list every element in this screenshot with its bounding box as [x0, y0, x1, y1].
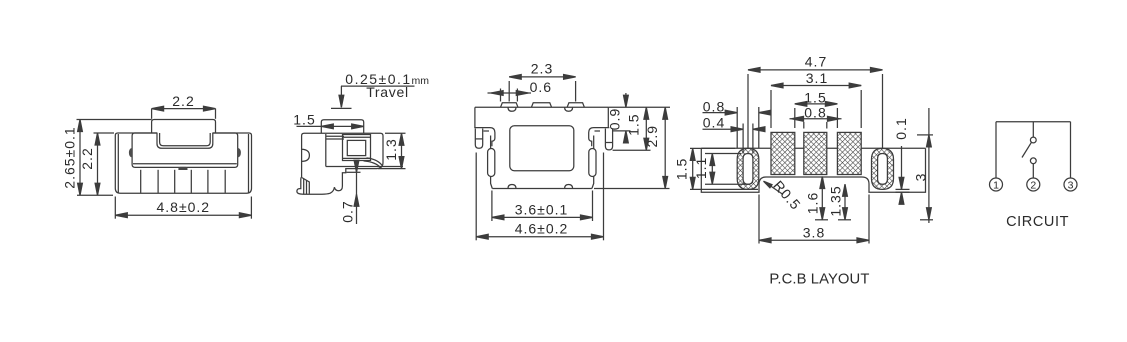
body bottom extension line (left) [77, 194, 113, 196]
rib line 4 [190, 170, 192, 193]
dim 2.3 line [509, 76, 575, 78]
svg-text:1.5: 1.5 [293, 111, 315, 127]
top tab middle [531, 103, 551, 108]
rib line 3 [174, 170, 176, 193]
dim 3.1 line [771, 85, 861, 87]
dim 2.9 [664, 107, 666, 188]
svg-text:1.35: 1.35 [827, 185, 843, 216]
top view cover top edge [475, 106, 608, 108]
dim 3.8: ext lines [758, 195, 760, 244]
dim 0.8 left: line [703, 112, 738, 114]
top notch semicircle left [508, 107, 516, 111]
dim 4.8 extension lines [114, 197, 116, 219]
rib line 5 [207, 170, 209, 193]
svg-text:4.7: 4.7 [805, 53, 827, 69]
shaft lower lines [326, 166, 403, 168]
body top extension line (left) [94, 132, 115, 134]
svg-text:1.1: 1.1 [693, 157, 709, 179]
center detent tab [178, 167, 187, 170]
pcb outline left/bottom/right [701, 148, 925, 192]
dim 1.1 left pcb [705, 153, 741, 155]
central button rect [510, 126, 574, 171]
svg-text:0.8: 0.8 [703, 98, 725, 114]
dim 0.6: ext lines [500, 89, 502, 102]
dim 0.8 pcb mid: ext lines [803, 122, 805, 129]
rib line 1 [140, 170, 142, 193]
side foot chamfer and inner lines [302, 178, 309, 194]
mask notch opening [157, 132, 212, 134]
svg-text:1.5: 1.5 [804, 89, 826, 105]
dim 3.8 line [759, 239, 869, 241]
svg-text:1.6: 1.6 [805, 192, 821, 214]
svg-text:4.6±0.2: 4.6±0.2 [515, 221, 569, 237]
svg-text:1.3: 1.3 [383, 138, 399, 160]
pad rect 1 [771, 132, 795, 174]
button top extension line [77, 119, 152, 121]
dim 1.35 [844, 184, 846, 220]
left arm [474, 128, 495, 147]
dim 4.6: ext lines [475, 153, 477, 241]
dim 0.8 left ext lines [736, 107, 738, 148]
dim 0.6 line + outside arrows [488, 92, 532, 94]
top tab right [567, 103, 584, 108]
svg-text:1.5: 1.5 [673, 158, 689, 180]
left oval pad [737, 148, 759, 189]
button recess notch inner [160, 133, 211, 146]
dim 0.9 [625, 93, 627, 107]
right pin [605, 129, 612, 150]
dim 1.6 [821, 177, 823, 220]
terminal circle 1 [990, 178, 1003, 191]
side body outline [297, 133, 383, 194]
top edge extension right [608, 106, 670, 108]
side inner wall [325, 134, 327, 167]
dim 0.4 left ext lines [742, 124, 744, 154]
dim 1.3 line [401, 133, 403, 168]
svg-text:3.1: 3.1 [806, 70, 828, 86]
svg-text:2.9: 2.9 [644, 125, 660, 147]
circuit right wire [1070, 122, 1072, 178]
left oval hole [743, 154, 753, 185]
svg-text:3: 3 [1068, 179, 1074, 191]
dim 3.6 line [492, 216, 593, 218]
top tab left [501, 103, 519, 108]
travel reference tick [331, 107, 352, 109]
right stadium pad [589, 149, 596, 177]
dim 1.5 (top view) [645, 107, 647, 150]
circuit middle wire lower [1032, 163, 1034, 178]
dim 2.2 left line [97, 133, 99, 195]
frame left side dimple [129, 148, 132, 158]
inner corner curves [364, 161, 381, 168]
rib line 6 [224, 170, 226, 193]
side button cap [321, 120, 363, 133]
0.25 text underline [341, 85, 415, 87]
svg-text:3.6±0.1: 3.6±0.1 [515, 201, 569, 217]
svg-text:CIRCUIT: CIRCUIT [1006, 214, 1069, 230]
dim 1.3 extension lines [385, 132, 406, 134]
dim 1.5 side line [297, 125, 364, 127]
switch lever [1022, 142, 1032, 157]
svg-text:R0.5: R0.5 [770, 177, 804, 213]
front body outline [115, 133, 251, 193]
base right edge [592, 136, 594, 189]
right arm [589, 128, 610, 147]
frame bottom inner line [133, 163, 237, 165]
svg-text:0.6: 0.6 [530, 79, 552, 95]
rib line 2 [157, 170, 159, 193]
dim 1.5 left pcb [690, 147, 735, 149]
dim 3.6: ext lines [491, 191, 493, 222]
cover band lines [326, 135, 344, 137]
dim 2.2 top: dimension line [152, 108, 216, 110]
dim 3.1: ext lines [770, 90, 772, 128]
circuit top wire [996, 121, 1071, 123]
svg-text:1: 1 [993, 179, 999, 191]
front button cap [152, 120, 216, 134]
top notch semicircle right [565, 107, 573, 111]
dim 4.7 line [748, 69, 883, 71]
side shaft walls [343, 135, 371, 161]
svg-text:0.7: 0.7 [340, 200, 356, 222]
R0.5 leader [766, 183, 784, 195]
circuit left wire [995, 122, 997, 178]
svg-text:mm: mm [412, 75, 430, 87]
right oval pad [872, 148, 894, 189]
svg-text:0.8: 0.8 [804, 104, 826, 120]
svg-text:P.C.B LAYOUT: P.C.B LAYOUT [769, 271, 869, 287]
button recess notch outer [157, 133, 213, 148]
circuit middle wire upper [1032, 122, 1034, 138]
svg-text:2.2: 2.2 [79, 147, 95, 169]
dim 2.65 line [79, 120, 81, 196]
dim 2.3: ext lines [508, 81, 510, 102]
left pin [475, 129, 482, 149]
svg-text:4.8±0.2: 4.8±0.2 [156, 199, 210, 215]
cover side edges [474, 107, 476, 127]
right oval hole [878, 154, 888, 185]
svg-text:Travel: Travel [366, 84, 409, 100]
side left D bump [302, 149, 310, 161]
base left edge [491, 136, 493, 189]
bottom notch semicircle right [565, 185, 573, 189]
pcb outline top edge [701, 147, 925, 149]
switch lower contact circle [1030, 158, 1036, 164]
dim 4.8 line [115, 214, 251, 216]
svg-text:2: 2 [1030, 179, 1036, 191]
terminal circle 2 [1027, 178, 1040, 191]
base bottom edge [492, 188, 592, 190]
dim 1.5 pcb: ext lines [794, 108, 796, 128]
dim 2.2 top: extension lines [151, 109, 153, 119]
frame right side dimple [238, 148, 241, 158]
bottom notch semicircle left [508, 185, 516, 189]
svg-text:2.2: 2.2 [172, 93, 194, 109]
svg-text:0.4: 0.4 [703, 115, 725, 131]
dim 3 right [928, 108, 930, 223]
pad rect 3 [837, 132, 861, 174]
terminal circle 3 [1064, 178, 1077, 191]
svg-text:0.1: 0.1 [893, 117, 909, 139]
front body inner side lines [117, 134, 119, 193]
dim 4.6 line [476, 236, 603, 238]
dim 4.7: ext lines [747, 74, 749, 148]
dim 0.7 [356, 162, 358, 224]
dim 0.8 pcb line + outside arrows [790, 118, 842, 120]
front metal frame [132, 133, 238, 167]
svg-text:0.9: 0.9 [606, 108, 622, 130]
svg-text:3.8: 3.8 [803, 224, 825, 240]
pad rect 2 [804, 132, 827, 174]
svg-text:1.5: 1.5 [626, 113, 642, 135]
svg-text:2.65±0.1: 2.65±0.1 [62, 126, 78, 188]
dim 0.1 right [901, 146, 903, 189]
dim 0.4 left: line [703, 128, 744, 130]
svg-text:3: 3 [912, 173, 928, 182]
svg-text:2.3: 2.3 [531, 61, 553, 77]
travel leader line [340, 86, 342, 96]
switch upper contact circle [1030, 137, 1036, 143]
left stadium pad [488, 149, 495, 177]
dim 1.5 pcb line [795, 103, 838, 105]
